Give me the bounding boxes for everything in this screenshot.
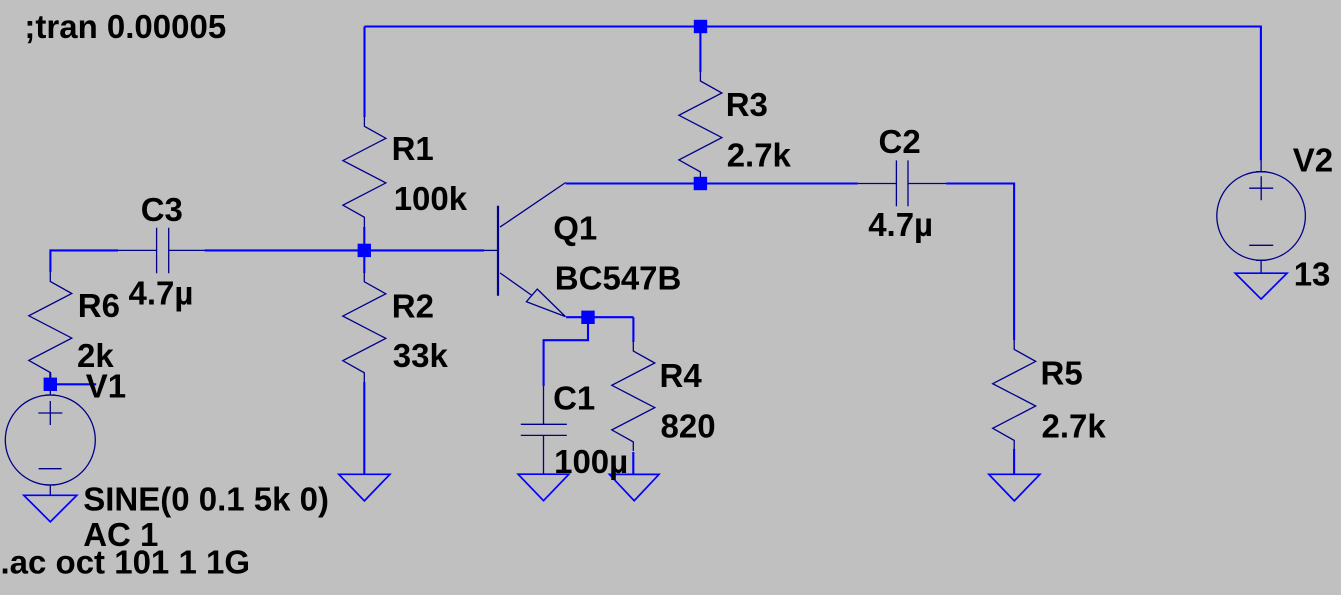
resistor R4 [612, 341, 655, 451]
wire R4 top [632, 317, 634, 342]
wire R3 top [699, 27, 701, 73]
wire R4 bottom [632, 452, 634, 474]
junction node collector / R3 bottom [694, 177, 707, 190]
svg-text:820: 820 [661, 408, 716, 445]
svg-text:C3: C3 [141, 191, 183, 228]
svg-text:BC547B: BC547B [555, 260, 682, 297]
svg-text:R4: R4 [660, 357, 703, 394]
junction node top rail / R3 [694, 20, 707, 33]
svg-text:R1: R1 [392, 130, 434, 167]
svg-text:V2: V2 [1293, 141, 1333, 178]
capacitor C2 [858, 160, 946, 206]
wire V1 stub [50, 383, 96, 385]
svg-text:;tran 0.00005: ;tran 0.00005 [24, 8, 226, 45]
wire R6 bottom [49, 373, 51, 385]
wire R5 bottom [1013, 449, 1015, 474]
wire top rail [365, 25, 1262, 27]
wire V2 drop [1260, 27, 1262, 161]
wire R2 bottom [363, 382, 365, 474]
resistor R1 [343, 117, 386, 228]
svg-text:SINE(0 0.1 5k 0): SINE(0 0.1 5k 0) [83, 481, 329, 518]
svg-text:V1: V1 [86, 367, 126, 404]
svg-text:4.7µ: 4.7µ [868, 206, 933, 243]
wire base right [205, 249, 484, 251]
ground R4 [609, 474, 659, 500]
svg-text:4.7µ: 4.7µ [129, 274, 194, 311]
wire R1 top [363, 27, 365, 118]
ground R2 [339, 474, 390, 501]
svg-text:100k: 100k [394, 180, 468, 217]
wire R6 top [49, 249, 51, 272]
ground R5 [989, 474, 1040, 501]
svg-text:33k: 33k [393, 337, 449, 374]
wire R1 bottom [363, 227, 365, 250]
junction node V1 / R6 [44, 378, 57, 391]
transistor Q1 [484, 183, 566, 317]
svg-text:R3: R3 [726, 86, 768, 123]
wire R5 top [1013, 183, 1015, 341]
svg-text:2.7k: 2.7k [1042, 408, 1107, 445]
wire base left [50, 249, 118, 251]
svg-text:Q1: Q1 [553, 210, 597, 247]
svg-text:.ac oct 101 1 1G: .ac oct 101 1 1G [1, 543, 250, 580]
voltage source V2 [1217, 160, 1306, 273]
svg-text:C1: C1 [553, 380, 595, 417]
resistor R3 [679, 72, 722, 179]
svg-text:2.7k: 2.7k [727, 137, 792, 174]
svg-text:R5: R5 [1041, 355, 1083, 392]
svg-text:R6: R6 [78, 287, 120, 324]
junction node base / R1 R2 [358, 244, 371, 257]
resistor R2 [343, 272, 386, 382]
svg-text:R2: R2 [392, 288, 434, 325]
resistor R5 [993, 340, 1036, 451]
wire C2 right [946, 182, 1014, 184]
svg-text:13: 13 [1294, 256, 1331, 293]
capacitor C3 [118, 228, 205, 273]
ground C1 [518, 474, 569, 501]
wire R2 top [363, 250, 365, 273]
svg-text:100µ: 100µ [554, 443, 628, 480]
wire C1 branch [544, 317, 588, 386]
ground V1 [24, 495, 77, 522]
wire emitter node [566, 316, 633, 318]
voltage source V1 [5, 390, 95, 495]
ground V2 [1235, 273, 1287, 299]
capacitor C1 [521, 386, 567, 474]
svg-text:C2: C2 [879, 123, 921, 160]
resistor R6 [29, 272, 72, 379]
junction node emitter [581, 311, 594, 324]
wire collector rail [566, 182, 858, 184]
